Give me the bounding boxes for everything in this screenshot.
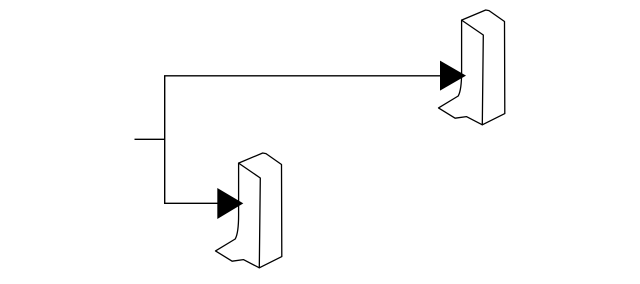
wire: left tick (135, 138, 165, 140)
arrowhead (lower) (217, 188, 243, 219)
arrowhead (upper) (440, 61, 466, 91)
part bracket (lower left) (216, 153, 282, 268)
wire: leader lines (165, 76, 441, 204)
part bracket (upper right) (439, 10, 505, 125)
